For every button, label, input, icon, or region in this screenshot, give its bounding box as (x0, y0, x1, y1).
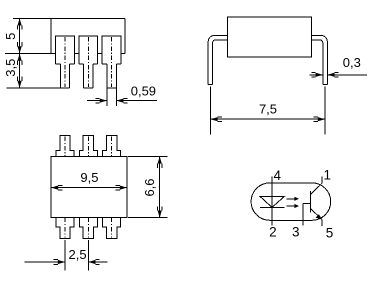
side view: pin 3 width extension lines (107, 88, 116, 106)
optocoupler symbol body outline (251, 183, 331, 220)
dimension 6,6 (body depth) (128, 156, 168, 217)
top view: pin 4 centerline (64, 218, 66, 238)
svg-text:3,5: 3,5 (3, 59, 18, 77)
svg-text:2: 2 (269, 225, 277, 240)
pin 3 lead wire (302, 204, 304, 226)
side view: package body (13, 18, 125, 53)
phototransistor emitter with arrow / pin 5 lead (311, 209, 323, 226)
pin label 3 (292, 225, 300, 240)
dimension 2,5 (pin pitch) (25, 240, 108, 270)
phototransistor base (303, 191, 311, 212)
side view: pin 3 centerline (111, 37, 113, 87)
svg-text:2,5: 2,5 (69, 247, 87, 262)
svg-text:5: 5 (326, 225, 334, 240)
dimension 5 (body height) (3, 18, 51, 53)
side view: pin 1 (56, 36, 75, 88)
svg-text:0,3: 0,3 (343, 55, 361, 70)
dimension 9,5 (body width) (51, 170, 127, 190)
front view: package body (227, 17, 311, 57)
side view: pin 2 (79, 36, 98, 88)
front view: right lead (312, 36, 328, 85)
top view: pin 3 centerline (111, 137, 113, 157)
LED emitter diode (260, 196, 285, 207)
side view: pin 3 (102, 36, 121, 88)
top view: pin 6 centerline (111, 218, 113, 238)
light arrows (287, 197, 300, 208)
dimension 7,5 (lead spacing) (210, 87, 325, 135)
top view: pin 1 centerline (64, 137, 66, 157)
svg-text:9,5: 9,5 (80, 170, 98, 185)
dimension 0,59 (pin width) (87, 83, 157, 103)
top view: pin 5 (lower row) (79, 218, 97, 239)
top view: pin 6 (lower row) (103, 218, 121, 239)
svg-text:1: 1 (323, 168, 331, 183)
phototransistor collector / pin 1 lead (311, 176, 323, 194)
top view: pin 4 (lower row) (56, 218, 74, 239)
dimension 3,5 (pin length) (3, 54, 60, 89)
svg-text:0,59: 0,59 (131, 83, 156, 98)
top view: pin 2 centerline (87, 137, 89, 157)
pin 2 lead wire (271, 207, 273, 225)
pin label 5 (326, 225, 334, 240)
top view: pin 3 (upper row) (103, 136, 121, 157)
dimension 0,3 (lead thickness) (310, 55, 368, 77)
pin 4 lead wire (271, 176, 273, 207)
svg-text:6,6: 6,6 (142, 178, 157, 196)
pin label 1 (323, 168, 331, 183)
svg-text:5: 5 (3, 33, 18, 40)
top view: package body (51, 156, 127, 217)
side view: pin 1 centerline (64, 37, 66, 87)
svg-text:7,5: 7,5 (259, 102, 277, 117)
top view: pin 1 (upper row) (56, 136, 74, 157)
pin label 4 (273, 168, 281, 183)
front view: left lead (208, 36, 227, 85)
svg-text:3: 3 (292, 225, 300, 240)
svg-text:4: 4 (273, 168, 281, 183)
pin label 2 (269, 225, 277, 240)
top view: pin 5 centerline (87, 218, 89, 238)
top view: pin 2 (upper row) (79, 136, 97, 157)
side view: pin 2 centerline (87, 37, 89, 87)
